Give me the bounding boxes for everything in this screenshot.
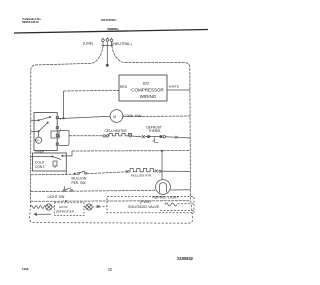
svg-text:MULLION HTR.: MULLION HTR. bbox=[131, 174, 152, 178]
svg-text:CONT.: CONT. bbox=[35, 165, 45, 169]
svg-text:SOLENOID VALVE: SOLENOID VALVE bbox=[128, 205, 160, 209]
svg-text:(PWR): (PWR) bbox=[140, 200, 151, 204]
svg-text:CELL HEATER: CELL HEATER bbox=[105, 129, 128, 133]
svg-text:5995314513: 5995314513 bbox=[22, 20, 39, 24]
svg-text:TM: TM bbox=[35, 139, 38, 142]
svg-text:WIRING: WIRING bbox=[140, 94, 157, 99]
svg-text:WHITE: WHITE bbox=[169, 84, 179, 88]
svg-text:AUTO: AUTO bbox=[59, 205, 68, 209]
svg-text:M: M bbox=[113, 115, 116, 119]
svg-text:LIGHT SW: LIGHT SW bbox=[48, 195, 66, 199]
svg-text:S100832: S100832 bbox=[177, 256, 194, 261]
svg-text:(LINE): (LINE) bbox=[83, 41, 93, 45]
svg-text:GRT21PRU: GRT21PRU bbox=[101, 18, 116, 22]
svg-text:REFRIG. LIGHT: REFRIG. LIGHT bbox=[152, 196, 179, 200]
svg-text:DEFROSTER: DEFROSTER bbox=[56, 210, 74, 214]
svg-text:TIMER: TIMER bbox=[35, 149, 45, 153]
svg-text:COND. FAN: COND. FAN bbox=[124, 114, 143, 118]
svg-text:RED: RED bbox=[120, 85, 128, 89]
svg-text:14/98: 14/98 bbox=[22, 267, 29, 271]
svg-text:COMPRESSOR: COMPRESSOR bbox=[131, 87, 164, 92]
svg-text:THERM.: THERM. bbox=[148, 129, 161, 133]
svg-text:COLD: COLD bbox=[35, 160, 45, 164]
svg-text:WIRING: WIRING bbox=[107, 27, 119, 31]
svg-text:(NEUTRAL): (NEUTRAL) bbox=[112, 42, 132, 46]
svg-text:12: 12 bbox=[108, 267, 112, 271]
svg-text:PER. SW.: PER. SW. bbox=[72, 181, 87, 185]
svg-text:822: 822 bbox=[143, 81, 150, 86]
